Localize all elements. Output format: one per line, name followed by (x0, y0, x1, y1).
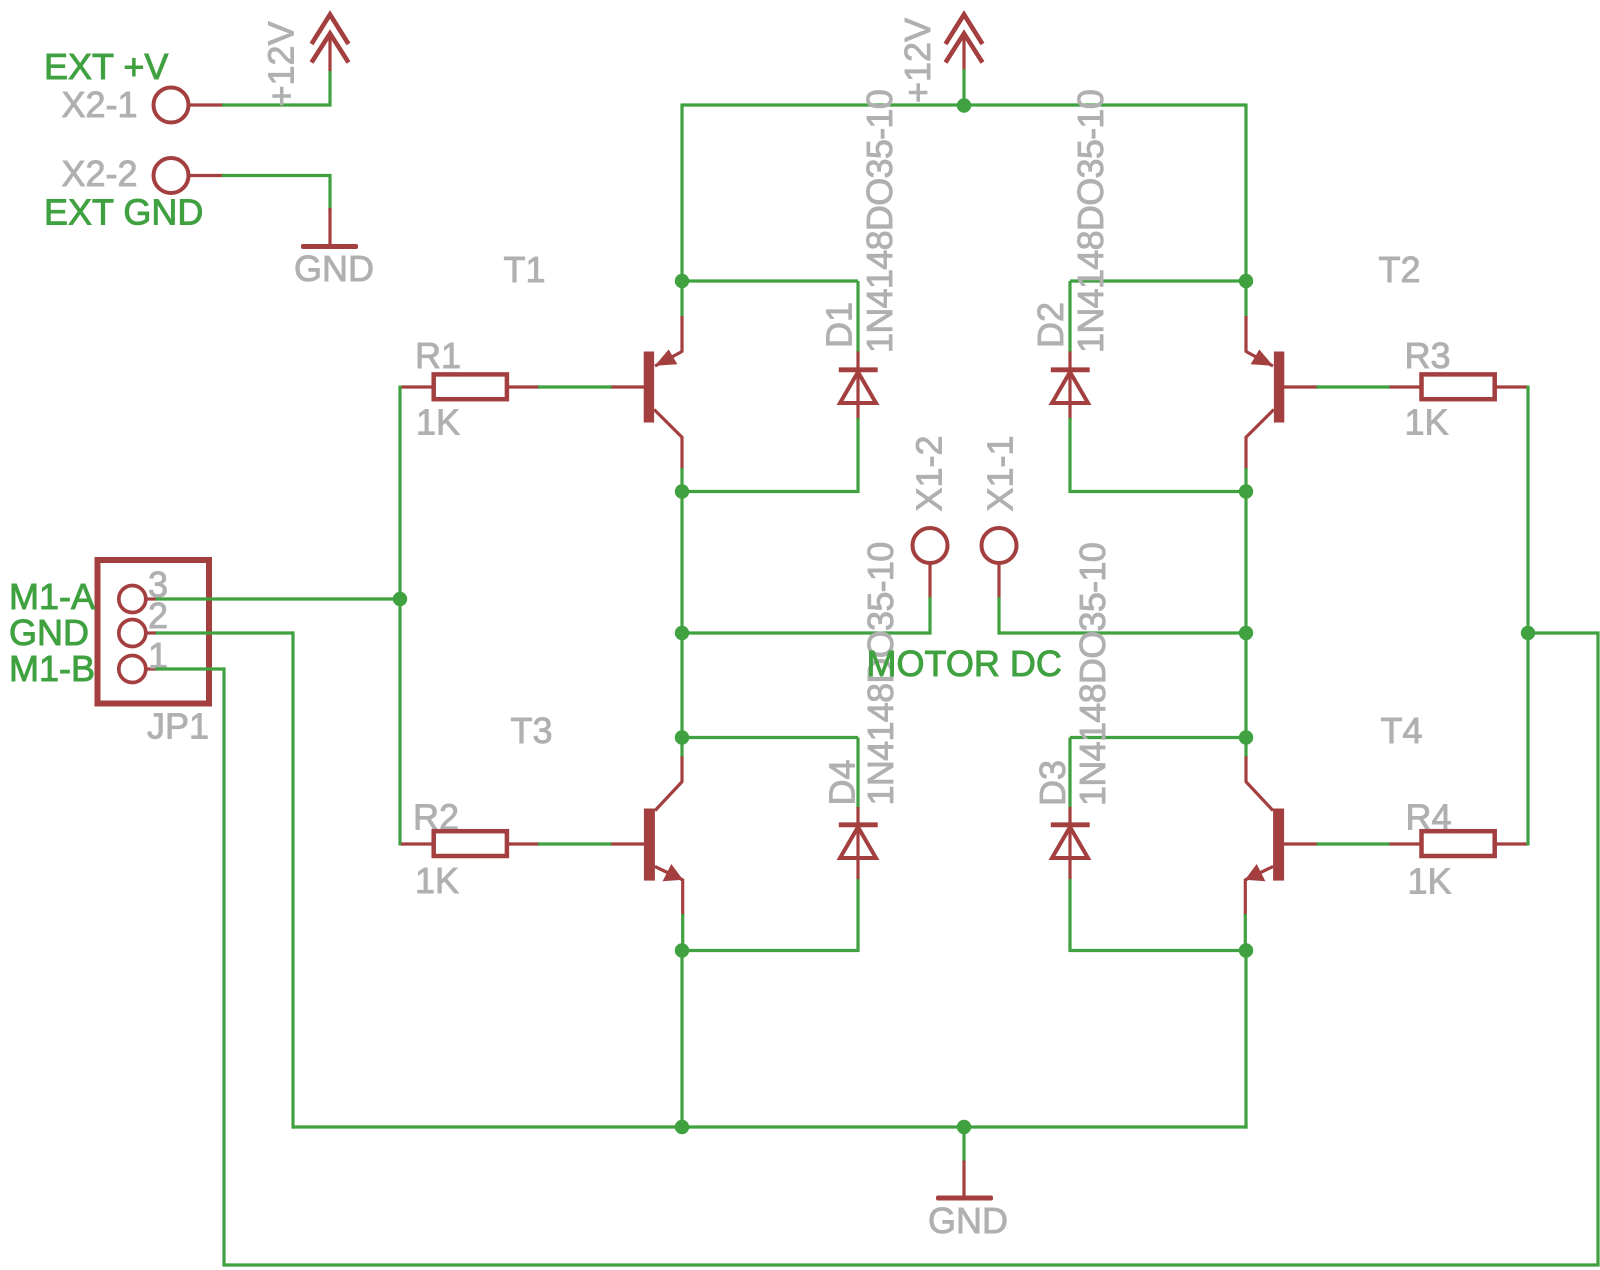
wire left supply column (680, 104, 683, 318)
junction GND symbol node (957, 1120, 971, 1134)
wire emitter node to D2 (1070, 279, 1246, 282)
terminal X2-1 (154, 88, 189, 123)
svg-text:EXT +V: EXT +V (44, 46, 168, 87)
svg-text:GND: GND (9, 612, 89, 653)
wire R2 to T3 base (538, 842, 612, 845)
wire X2-1 to +12V (222, 71, 330, 105)
svg-text:+12V: +12V (261, 21, 302, 106)
transistor T3 (610, 755, 683, 916)
svg-text:MOTOR DC: MOTOR DC (867, 643, 1062, 684)
svg-text:1N4148DO35-10: 1N4148DO35-10 (1070, 90, 1111, 353)
ground symbol GND (top left) (301, 208, 358, 249)
wire +12V top rail (682, 103, 1246, 106)
terminal X1-2 (913, 528, 948, 635)
wire output column left (T1 collector to T3 collector) (680, 490, 683, 739)
junction T2 emitter node (1239, 274, 1253, 288)
wire T3 collector upper (680, 736, 683, 757)
transistor T4 (1245, 755, 1318, 916)
pin stub X2-1 (190, 103, 225, 106)
wire emitter node to D4 (682, 949, 858, 952)
svg-text:X2-1: X2-1 (62, 84, 138, 125)
wire output column right (T2 collector to T4 collector) (1244, 490, 1247, 739)
svg-text:GND: GND (294, 248, 374, 289)
junction T2 collector node (1239, 484, 1253, 498)
wire +12V stub (962, 69, 965, 105)
supply symbol +12V (left) (312, 15, 349, 72)
svg-text:X1-1: X1-1 (979, 435, 1020, 511)
svg-text:EXT GND: EXT GND (44, 192, 203, 233)
connector JP1 body (98, 560, 210, 704)
wire T4 emitter to bottom rail (1244, 951, 1247, 1129)
svg-text:2: 2 (148, 595, 168, 636)
svg-text:+12V: +12V (897, 18, 938, 103)
junction T4 collector node (1239, 730, 1253, 744)
JP1 pin 2 (119, 620, 157, 647)
pin stub X2-2 (190, 174, 225, 177)
svg-text:R1: R1 (415, 335, 461, 376)
svg-text:M1-A: M1-A (9, 576, 95, 617)
junction T1 emitter node (675, 274, 689, 288)
diode D4 (839, 738, 878, 953)
svg-text:1K: 1K (1408, 861, 1452, 902)
junction M1-B right node (1521, 626, 1535, 640)
svg-text:T4: T4 (1381, 710, 1423, 751)
wire T4 base to R4 (1317, 842, 1390, 845)
junction T4 emitter node (1239, 943, 1253, 957)
junction X1-1 node (1239, 626, 1253, 640)
wire M1-A (pin3 to H-bridge) (156, 597, 402, 600)
junction X1-2 node (675, 626, 689, 640)
ground symbol GND (bottom) (936, 1127, 993, 1201)
svg-text:D3: D3 (1032, 760, 1073, 806)
terminal X2-2 (154, 158, 189, 193)
svg-text:X1-2: X1-2 (909, 435, 950, 511)
svg-text:GND: GND (928, 1200, 1008, 1241)
wire T3 emitter lower (681, 914, 684, 952)
wire T2 collector (1244, 468, 1247, 493)
JP1 pin 3 (119, 586, 157, 613)
svg-text:X2-2: X2-2 (62, 153, 138, 194)
junction T1 collector node (675, 484, 689, 498)
transistor T1 (610, 316, 682, 470)
wire output node to X1-2 (682, 631, 930, 634)
JP1 pin 1 (119, 656, 157, 683)
junction T3 emitter node (675, 943, 689, 957)
resistor R1 (401, 374, 540, 399)
svg-text:T3: T3 (511, 710, 553, 751)
wire X2-2 to GND (222, 176, 330, 211)
svg-text:1K: 1K (1405, 402, 1449, 443)
svg-text:JP1: JP1 (147, 706, 209, 747)
resistor R3 (1388, 374, 1528, 399)
wire emitter node to D1 (682, 279, 858, 282)
wire T1 collector (680, 468, 683, 493)
wire T4 emitter lower (1244, 914, 1247, 952)
wire collector node to D3 (1070, 736, 1246, 739)
wire collector node to D4 (682, 736, 858, 739)
svg-text:1N4148DO35-10: 1N4148DO35-10 (1072, 543, 1113, 806)
junction T3 collector node (675, 730, 689, 744)
svg-text:1K: 1K (415, 860, 459, 901)
terminal X1-1 (982, 528, 1017, 635)
supply symbol +12V (top center) (946, 15, 983, 72)
svg-text:D2: D2 (1030, 302, 1071, 348)
wire M1-B from pin 1 (156, 669, 1600, 1265)
svg-text:M1-B: M1-B (9, 648, 95, 689)
svg-text:T1: T1 (504, 249, 546, 290)
resistor R4 (1388, 831, 1528, 856)
svg-text:D1: D1 (819, 302, 860, 348)
resistor R2 (401, 831, 540, 856)
svg-text:1N4148DO35-10: 1N4148DO35-10 (859, 90, 900, 353)
svg-text:D4: D4 (822, 759, 863, 805)
diode D1 (839, 281, 878, 493)
diode D3 (1051, 738, 1090, 953)
wire T3 emitter to bottom rail (680, 951, 683, 1130)
junction T3 ground node (675, 1120, 689, 1134)
wire GND from pin 2 (156, 633, 294, 1129)
wire T4 collector upper (1244, 736, 1247, 757)
wire R3/R4 right column (1526, 386, 1529, 846)
wire collector node to D2 (1070, 490, 1246, 493)
wire M1-B node to right edge (1528, 633, 1598, 1265)
wire bottom ground rail (293, 1125, 1248, 1128)
wire right supply column (1244, 104, 1247, 318)
wire collector node to D1 (682, 490, 858, 493)
svg-text:R3: R3 (1405, 335, 1451, 376)
wire R1 to T1 base (538, 385, 612, 388)
wire emitter node to D3 (1070, 949, 1246, 952)
junction on top rail (957, 98, 971, 112)
svg-text:1K: 1K (416, 402, 460, 443)
wire M1-A column (398, 386, 401, 846)
transistor T2 (1246, 316, 1318, 470)
diode D2 (1051, 281, 1090, 493)
svg-text:T2: T2 (1379, 249, 1421, 290)
junction M1-A node (393, 592, 407, 606)
wire T2 base to R3 (1317, 385, 1390, 388)
wire output node to X1-1 (999, 631, 1246, 634)
